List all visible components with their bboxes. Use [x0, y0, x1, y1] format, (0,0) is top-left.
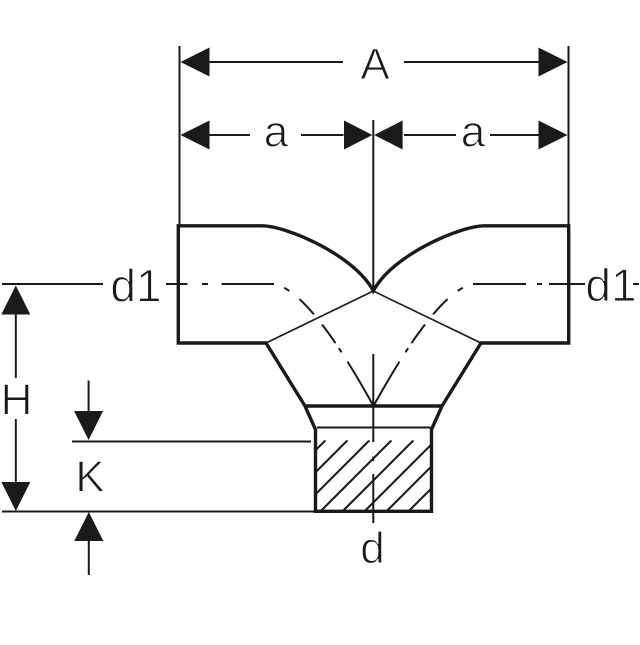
arrowhead K up [74, 512, 103, 541]
arrowhead A right [539, 48, 568, 77]
centerline d1 right dash-dot [473, 283, 585, 285]
centerline d1 left dash-dot [166, 283, 274, 285]
arrowhead a far-left [181, 121, 210, 150]
dimension line A [209, 61, 539, 63]
svg-text:K: K [75, 453, 104, 502]
hatching [255, 440, 480, 511]
arrowhead H down [1, 482, 30, 511]
valley line left [266, 291, 373, 343]
centerline d1 left horizontal [2, 283, 103, 285]
bottom reference line [2, 511, 315, 513]
svg-text:d1: d1 [110, 260, 161, 312]
arrowhead H up [1, 286, 30, 315]
extension line right (A dim) [568, 46, 570, 225]
H dimension line lower [15, 419, 17, 483]
svg-text:H: H [1, 376, 33, 425]
socket depth line [317, 427, 431, 429]
centerline bend left [274, 284, 374, 406]
svg-text:A: A [360, 40, 390, 89]
K dimension line upper [88, 381, 90, 413]
svg-text:a: a [264, 108, 289, 157]
svg-text:d: d [360, 524, 384, 573]
svg-text:d1: d1 [585, 259, 636, 311]
dimension line a (left) [209, 134, 539, 136]
arrowhead K down [74, 411, 103, 440]
K dimension line lower [88, 541, 90, 575]
arrowhead a center-left [344, 121, 372, 150]
K reference line [72, 441, 311, 443]
centerline bend right [374, 284, 474, 406]
extension line left (A dim) [179, 46, 181, 225]
valley line right [373, 291, 481, 343]
vertical centerline below V [372, 354, 374, 523]
centerline d1 right short [633, 283, 639, 285]
extension line center (a dim) [372, 120, 374, 290]
arrowhead A left [181, 48, 210, 77]
arrowhead a center-right [374, 121, 402, 150]
fitting body outline [178, 226, 568, 512]
H dimension line upper [15, 314, 17, 378]
svg-text:a: a [461, 108, 486, 157]
shoulder line [305, 404, 442, 407]
arrowhead a far-right [539, 121, 568, 150]
